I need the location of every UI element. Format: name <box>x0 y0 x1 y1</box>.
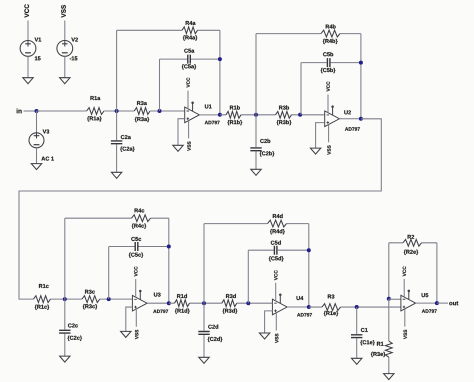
node: input net 'in' <box>35 109 39 113</box>
wire: U4 output lead <box>287 306 309 308</box>
label U1 <box>205 105 212 109</box>
label V3 <box>43 130 50 134</box>
label 15 <box>35 56 41 60</box>
pin U4 V+ stub <box>279 296 281 304</box>
label C1 <box>361 328 368 332</box>
label {C5d} <box>269 256 284 261</box>
ground V3 <box>31 164 41 170</box>
node G junction <box>202 301 206 305</box>
wire: C2c stem <box>64 299 66 356</box>
wire: R4d rail <box>204 223 309 225</box>
wire: rail5 segments <box>309 306 401 308</box>
label R3c <box>85 290 95 294</box>
wire: rail4 segments <box>169 302 273 304</box>
label {C2c} <box>68 336 82 341</box>
wire: C5b rail <box>301 62 361 64</box>
wire: U3 output lead <box>147 302 169 304</box>
wire: U2 VSS net <box>328 125 330 143</box>
wire: R1c to node E to R3c <box>51 298 83 300</box>
label C2a <box>121 135 131 139</box>
wire: R2 rail <box>389 242 437 244</box>
label U3 AD797 <box>153 310 168 313</box>
capacitor C2b <box>250 148 261 151</box>
resistor R1d <box>175 300 190 307</box>
ground C2d <box>199 357 209 363</box>
wire: rail2 segments <box>220 114 325 116</box>
label R4d <box>273 214 283 218</box>
label U5 VSS <box>404 330 407 339</box>
wire: U5 VSS net <box>404 309 406 327</box>
wire: R3c to U3 inverting input <box>100 298 133 300</box>
node I junction C1 tap <box>355 305 359 309</box>
ground C2c <box>60 356 70 362</box>
resistor R2 <box>403 239 422 246</box>
wire: stage1 feedback vertical <box>219 30 221 115</box>
resistor R3a <box>134 108 150 115</box>
label {R1d} <box>175 309 190 314</box>
ground V2 <box>60 78 70 84</box>
label U2 <box>344 110 351 114</box>
label U2 VCC <box>326 82 329 92</box>
wire: U1 output lead <box>199 114 220 116</box>
label AC 1 <box>41 157 54 161</box>
capacitor C2c <box>59 330 70 333</box>
label R2 <box>408 235 415 239</box>
resistor R3 <box>322 304 341 311</box>
ground C1 <box>352 358 362 364</box>
wire: R4a rail <box>117 29 220 31</box>
resistor R4a <box>182 27 198 34</box>
resistor R1a <box>87 108 104 115</box>
node D junction C5b tap <box>298 113 302 117</box>
node: U2 output <box>359 117 363 121</box>
wire: stage4 feedback vertical <box>308 224 310 307</box>
label C2b <box>260 139 270 143</box>
wire: U5 output lead <box>416 302 437 304</box>
node: C5b feedback junction <box>359 61 363 65</box>
label R3b <box>279 105 289 109</box>
wire: C5d rail <box>248 249 308 251</box>
capacitor C5c <box>135 242 138 251</box>
label V2 VSS <box>61 5 66 18</box>
ground V1 <box>23 78 33 84</box>
wire: U2 output lead <box>339 118 361 120</box>
wire: C2d stem <box>203 303 205 357</box>
node: C5a feedback junction <box>218 57 222 61</box>
wire: C5a rail <box>160 58 220 60</box>
wire: V1 bottom stem <box>27 56 29 77</box>
label U1 VSS <box>187 142 190 151</box>
wire: stage2 feedback vertical <box>360 34 362 119</box>
label {R3e} <box>371 352 385 357</box>
label U4 <box>297 296 304 300</box>
source V3 <box>29 133 44 148</box>
wire: C5b left leg <box>300 63 302 115</box>
wire: stage3 feedback vertical <box>168 218 170 303</box>
resistor R3b <box>276 111 292 118</box>
label R3a <box>137 101 147 105</box>
wire: C5c left leg <box>108 247 110 300</box>
label out <box>449 301 458 305</box>
label U4 VSS <box>275 334 278 343</box>
label V2 <box>71 38 78 42</box>
label V1 VCC <box>24 4 29 17</box>
wire: V1 top stem VCC <box>27 21 29 41</box>
ground C2a <box>111 172 121 178</box>
wire: C5c rail <box>109 246 169 248</box>
capacitor C5a <box>188 55 191 64</box>
wire: R4b left leg <box>255 34 257 115</box>
label C2c <box>68 324 78 328</box>
source V1 <box>20 41 36 57</box>
label U2 VSS <box>327 145 330 154</box>
ground C2b <box>251 169 261 175</box>
ground U2 input <box>310 148 320 154</box>
ground U3 input <box>121 331 131 337</box>
label R4c <box>135 209 145 213</box>
label in <box>17 109 22 114</box>
label U5 <box>422 293 429 297</box>
label {C2b} <box>260 151 275 156</box>
wire: V3 top stem <box>36 111 38 133</box>
label {C1e} <box>360 340 374 345</box>
capacitor C1 <box>351 335 362 338</box>
label U4 VCC <box>274 270 277 280</box>
node: C5d feedback junction <box>307 248 311 252</box>
label {R2e} <box>404 250 418 255</box>
label C5b <box>323 52 333 56</box>
pin U1 V+ stub <box>192 104 194 112</box>
wire: V2 top stem VSS <box>64 21 66 41</box>
wire: node to U5 inverting input <box>389 298 401 300</box>
label {R4a} <box>183 35 197 40</box>
label {R1b} <box>227 120 242 125</box>
label R1c <box>39 284 49 288</box>
label {R3a} <box>135 117 149 122</box>
op-amp U2 <box>325 111 340 127</box>
node C junction <box>254 113 258 117</box>
resistor R4c <box>132 215 151 222</box>
wire: R4a left leg <box>116 30 118 111</box>
label C5d <box>271 241 281 245</box>
label U5 VCC <box>403 266 406 276</box>
wire: R2 left leg <box>388 243 390 299</box>
pin U2 V+ stub <box>332 107 334 115</box>
label {R1a} <box>87 116 101 121</box>
label {R3c} <box>83 304 97 309</box>
source V2 <box>57 41 73 57</box>
wire: rail in to R1a <box>37 110 87 112</box>
label {R1e} <box>324 311 338 316</box>
wire: C5d left leg <box>247 250 249 303</box>
resistor R3d <box>222 300 237 307</box>
label R3 <box>328 295 335 299</box>
wire: inter-row connection <box>19 119 381 299</box>
label R3d <box>226 294 236 298</box>
label U2 AD797 <box>345 127 360 130</box>
wire: U3 VCC net <box>135 279 137 297</box>
label R4a <box>186 21 196 25</box>
label C2d <box>208 325 218 329</box>
resistor R3c <box>82 296 100 303</box>
label {C5c} <box>129 253 143 258</box>
node E junction <box>63 297 67 301</box>
wire: U3 noninv input to ground <box>126 307 133 331</box>
resistor R1 vertical <box>385 341 392 357</box>
label U1 VCC <box>186 78 189 88</box>
label R1d <box>177 294 187 298</box>
label R1b <box>230 105 240 109</box>
label C5a <box>184 49 194 53</box>
wire: U2 VCC net <box>327 95 329 113</box>
label {R3d} <box>223 309 238 314</box>
wire: C2a stem <box>116 111 118 172</box>
wire: U4 noninv input to ground <box>265 311 273 333</box>
label U5 AD797 <box>422 309 437 312</box>
wire: R4c left leg <box>64 218 66 299</box>
node: output junction <box>435 301 439 305</box>
label {C2d} <box>208 337 223 342</box>
label C5c <box>131 237 141 241</box>
wire: U4 VSS net <box>275 313 277 331</box>
node A junction <box>115 109 119 113</box>
label {R1c} <box>35 305 49 310</box>
wire: C2b stem <box>255 115 257 170</box>
wire: out lead <box>437 302 448 304</box>
wire: R3a to U1 inverting input <box>150 110 185 112</box>
node: U4 output <box>307 305 311 309</box>
label {R3b} <box>277 120 292 125</box>
wire: R4c rail <box>65 217 169 219</box>
capacitor C2d <box>198 332 209 335</box>
node: U5 inverting node <box>387 297 391 301</box>
wire: R1 stem <box>388 299 390 374</box>
label {C5b} <box>321 68 336 73</box>
resistor R1b <box>226 111 241 118</box>
wire: U1 noninv input to ground <box>178 119 185 146</box>
wire: U1 VSS net <box>188 121 190 139</box>
node B junction C5a tap <box>158 109 162 113</box>
label U4 AD797 <box>297 313 312 316</box>
op-amp U1 <box>185 107 200 123</box>
node: C5c feedback junction <box>167 245 171 249</box>
wire: R2 right leg <box>436 243 438 303</box>
label {R4b} <box>323 39 338 44</box>
capacitor C2a <box>111 141 122 144</box>
label {R4c} <box>132 224 146 229</box>
label R4b <box>326 24 336 28</box>
ground U4 input <box>259 333 269 339</box>
wire: R4d left leg <box>203 224 205 304</box>
label R1a <box>90 96 100 100</box>
wire: U2 noninv input to ground <box>316 123 325 149</box>
capacitor C5d <box>274 246 277 255</box>
pin U5 V+ stub <box>408 292 410 300</box>
node H junction C5d tap <box>246 301 250 305</box>
label -15 <box>70 56 78 60</box>
label V1 <box>35 38 42 42</box>
ground R1 <box>384 374 394 380</box>
wire: U3 VSS net <box>135 309 137 327</box>
label U1 AD797 <box>205 121 220 124</box>
label {C5a} <box>182 64 196 69</box>
wire: U1 VCC net <box>187 91 189 109</box>
label U3 <box>154 293 161 297</box>
node: U3 output <box>167 301 171 305</box>
wire: V2 bottom stem <box>64 56 66 77</box>
label {R4d} <box>270 229 285 234</box>
wire: C5a left leg <box>159 59 161 111</box>
label {C2a} <box>120 147 134 152</box>
resistor R1c <box>34 296 51 303</box>
pin U3 V+ stub <box>139 292 141 300</box>
capacitor C5b <box>327 58 330 67</box>
label U3 VCC <box>134 267 137 277</box>
op-amp U4 <box>272 299 287 315</box>
wire: input lead <box>24 110 37 112</box>
resistor R4b <box>321 30 340 37</box>
wire: V3 bottom stem <box>36 148 38 164</box>
node F junction C5c tap <box>107 297 111 301</box>
op-amp U3 <box>132 295 147 311</box>
label U3 VSS <box>135 330 138 339</box>
resistor R4d <box>268 220 287 227</box>
wire: U5 VCC net <box>403 279 405 297</box>
op-amp U5 <box>401 295 416 311</box>
wire: R4b rail <box>256 33 361 35</box>
ground U1 input <box>173 145 183 151</box>
wire: U4 VCC net <box>275 283 277 301</box>
node: U1 output <box>218 113 222 117</box>
label R1 <box>377 342 384 346</box>
wire: C1 stem <box>356 307 358 358</box>
wire: R1a to node A <box>104 110 134 112</box>
